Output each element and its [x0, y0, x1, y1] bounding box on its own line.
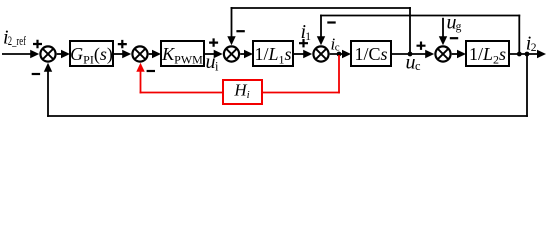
svg-text:c: c — [335, 41, 340, 53]
svg-text:2: 2 — [531, 42, 537, 54]
wire red ic feedback line right of Hi — [262, 92, 340, 94]
wire uc feedback drop into sum3 — [227, 7, 235, 45]
label uc — [406, 51, 422, 73]
wire sum5 to L2 block — [452, 50, 466, 58]
summing junction S5 — [435, 46, 450, 61]
svg-text:1: 1 — [305, 31, 311, 43]
wire bottom feedback riser into sum1 — [44, 63, 52, 117]
wire sum2 to KPWM — [149, 50, 161, 58]
wire bottom feedback line — [47, 115, 528, 117]
block 1/Cs — [351, 41, 391, 66]
label ic — [331, 35, 340, 54]
label i2_ref — [3, 27, 27, 49]
label ui — [206, 51, 220, 74]
label minus at ug arrow — [450, 37, 458, 39]
block Hi — [223, 80, 262, 104]
wire input i2_ref to sum1 — [2, 50, 39, 58]
summing junction S3 — [224, 46, 239, 61]
wire GPI to sum2 — [113, 50, 131, 58]
node i2 top junction dot — [517, 52, 522, 57]
label i2 — [526, 33, 537, 55]
wire sum1 to GPI — [57, 50, 70, 58]
block GPI(s) — [70, 41, 113, 67]
wire red ic feedback line left of Hi — [140, 92, 223, 94]
block KPWM — [161, 41, 204, 67]
wire C block to sum5 with uc node — [391, 50, 434, 58]
summing junction S4 — [313, 46, 328, 61]
label i1 — [301, 21, 312, 43]
wire red riser into sum2 — [136, 63, 144, 94]
wire L2 block to output i2 — [509, 50, 546, 58]
wire i2 feedback riser — [518, 15, 520, 54]
node uc junction dot — [408, 52, 413, 57]
svg-text:i: i — [215, 60, 219, 74]
svg-text:1/L2s: 1/L2s — [469, 44, 506, 67]
node ic junction dot — [337, 52, 342, 57]
node i2 bottom junction dot — [525, 52, 530, 57]
svg-text:c: c — [415, 59, 421, 73]
svg-text:2_ref: 2_ref — [8, 34, 27, 48]
wire uc feedback top line — [231, 7, 411, 9]
label plus at sum2 — [118, 40, 127, 48]
label plus at sum4 — [299, 39, 308, 47]
wire KPWM to sum3 — [204, 50, 223, 58]
summing junction S2 — [132, 46, 147, 61]
wire bottom feedback drop from i2 node — [526, 54, 528, 117]
wire sum3 to L1 block — [240, 50, 253, 58]
wire red ic feedback drop — [338, 55, 340, 93]
label minus at sum2 bottom — [147, 70, 155, 72]
svg-text:u: u — [206, 51, 216, 73]
block 1/L2s — [466, 41, 509, 67]
summing junction S1 — [40, 46, 55, 61]
wire sum4 to C block with ic node — [330, 50, 351, 58]
label plus at sum3 — [209, 38, 218, 46]
label minus at sum1 bottom — [32, 73, 40, 75]
label minus at sum4 top — [327, 21, 335, 23]
label plus at sum1 — [33, 40, 42, 48]
svg-text:u: u — [406, 51, 416, 73]
wire ug input into sum5 — [439, 18, 447, 45]
label ug — [447, 11, 462, 33]
wire uc feedback riser — [409, 7, 411, 54]
label minus at sum3 top — [236, 30, 244, 32]
wire i2 feedback drop into sum4 — [317, 15, 325, 46]
label plus at sum5 — [417, 42, 426, 50]
wire i2 feedback top line — [320, 15, 520, 17]
svg-text:1/L1s: 1/L1s — [254, 44, 291, 67]
block 1/L1s — [253, 41, 293, 67]
svg-text:g: g — [456, 21, 462, 33]
svg-text:1/Cs: 1/Cs — [354, 44, 387, 64]
wire L1 block to sum4 — [293, 50, 312, 58]
